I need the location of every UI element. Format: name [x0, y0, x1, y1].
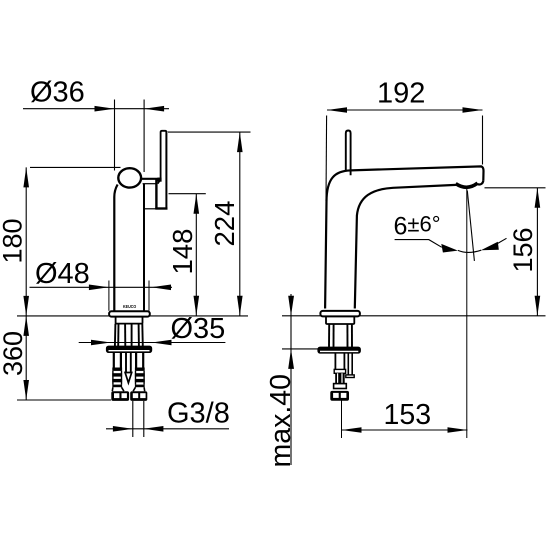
supply pipes front [114, 352, 143, 367]
thread bands left pipe front [112, 368, 122, 388]
153 left extension line [341, 401, 343, 439]
mounting surface line front [17, 315, 248, 317]
dimension Ø36 arrows [95, 106, 115, 112]
hex nut left front [111, 391, 129, 401]
rear pipe side [347, 353, 349, 375]
dimension G3/8 arrows [113, 426, 133, 432]
slanted spray line 6deg [467, 191, 474, 261]
leader line [395, 240, 442, 248]
lever side view [346, 131, 351, 176]
aerator bump [456, 183, 478, 187]
angle arc [458, 250, 481, 252]
vertical reference line from aerator [466, 189, 468, 439]
taper to nuts [112, 387, 144, 391]
192 extension lines [325, 116, 328, 202]
connector lever-to-ball [157, 178, 161, 182]
360 bottom extension line [17, 399, 111, 401]
dimension Ø35 arrows [91, 340, 111, 346]
svg-text:156: 156 [508, 227, 538, 272]
mounting washer side [318, 347, 360, 353]
thread bands right pipe front [135, 368, 145, 388]
max40 extension lines [282, 348, 318, 350]
faucet body outline side view [325, 166, 483, 308]
spout underside and inner curve side view [355, 181, 484, 309]
svg-text:KEUCO: KEUCO [123, 304, 137, 309]
base flange front view [109, 311, 150, 316]
svg-text:Ø36: Ø36 [30, 77, 85, 109]
svg-text:6±6°: 6±6° [394, 212, 441, 241]
svg-text:Ø35: Ø35 [171, 313, 226, 345]
hex nut side [330, 391, 349, 401]
G3/8 extension stubs below right nut [132, 401, 134, 437]
svg-text:max.40: max.40 [265, 374, 297, 467]
dimension Ø48 arrows [89, 285, 109, 291]
shank verticals side [329, 324, 352, 347]
svg-text:360: 360 [0, 331, 28, 376]
dimension Ø36 line [23, 100, 169, 173]
svg-text:G3/8: G3/8 [167, 398, 230, 430]
left angle arrowhead [441, 244, 458, 253]
dimension 192 line [327, 109, 483, 111]
dimension Ø48 line [30, 286, 173, 288]
svg-text:Ø48: Ø48 [35, 258, 90, 290]
right tail [497, 238, 506, 243]
lever blade front view [155, 131, 167, 209]
threaded section side (dark) [335, 373, 345, 383]
faucet body front view outline [114, 184, 156, 311]
shank collar front [116, 317, 143, 324]
ball joint circle front view [118, 168, 141, 187]
dimension G3/8 line [106, 428, 229, 430]
shank collar side [326, 317, 354, 324]
dimension Ø35 line [79, 342, 226, 344]
center rod V tip front [125, 373, 132, 383]
svg-text:153: 153 [384, 399, 432, 431]
base flange side view [320, 311, 360, 317]
dimension Ø48 extension lines [108, 281, 110, 311]
shank verticals front (Ø35 section) [115, 324, 143, 346]
mounting washer front [107, 346, 152, 352]
hex nut right front [130, 391, 147, 401]
extension line 180 top [30, 166, 121, 168]
extension line 224 top [168, 131, 251, 133]
svg-text:192: 192 [377, 78, 425, 110]
dimension 156 [485, 187, 546, 189]
svg-text:224: 224 [209, 201, 240, 247]
svg-text:180: 180 [0, 218, 28, 263]
supply pipe side [334, 353, 336, 370]
svg-text:148: 148 [167, 229, 198, 275]
mounting surface line side [282, 315, 546, 317]
right angle arrowhead [481, 242, 499, 251]
